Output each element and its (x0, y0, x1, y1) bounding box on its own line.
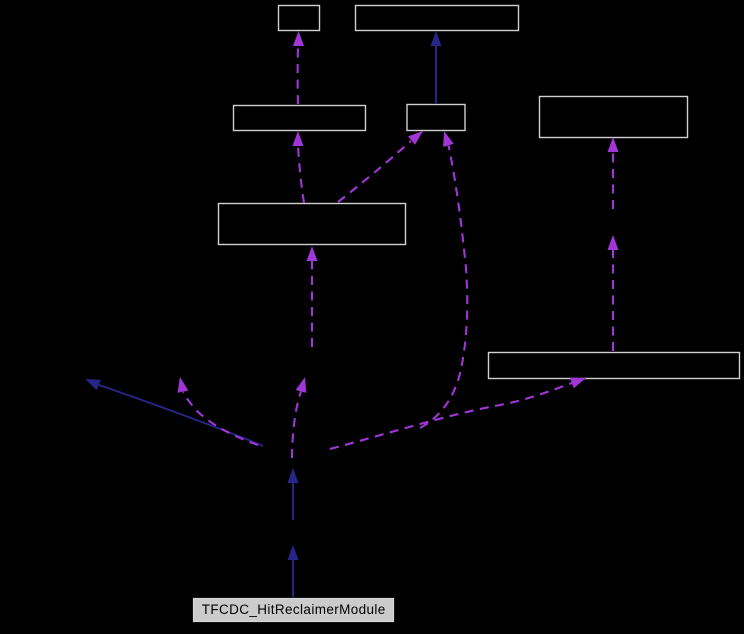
svg-text:TFCDC_HitReclaimerModule: TFCDC_HitReclaimerModule (202, 602, 386, 617)
